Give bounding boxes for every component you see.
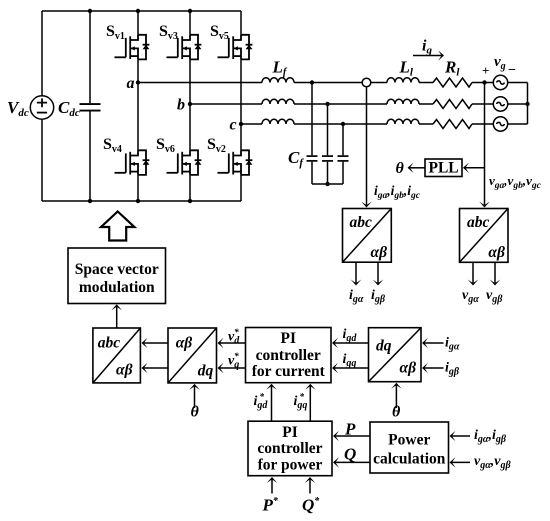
svg-text:igd: igd xyxy=(343,327,358,344)
svg-text:Rl: Rl xyxy=(444,58,460,79)
svg-text:−: − xyxy=(508,63,516,78)
svg-text:Cdc: Cdc xyxy=(58,98,80,119)
svg-text:vgα: vgα xyxy=(462,288,479,305)
svg-text:controller: controller xyxy=(257,440,322,457)
svg-text:αβ: αβ xyxy=(116,361,133,378)
svg-text:Sv3: Sv3 xyxy=(159,23,178,42)
svg-text:igα: igα xyxy=(445,336,460,353)
svg-text:dq: dq xyxy=(198,363,214,380)
svg-text:Power: Power xyxy=(388,431,430,448)
svg-text:igα,igβ: igα,igβ xyxy=(474,428,507,445)
svg-text:P*: P* xyxy=(262,496,279,515)
svg-text:igβ: igβ xyxy=(371,288,386,305)
svg-text:igq: igq xyxy=(343,352,357,369)
svg-text:Lf: Lf xyxy=(272,58,288,79)
svg-text:abc: abc xyxy=(350,214,373,231)
svg-text:αβ: αβ xyxy=(371,244,388,261)
svg-text:modulation: modulation xyxy=(79,279,155,296)
svg-text:vgα,vgβ: vgα,vgβ xyxy=(474,454,511,471)
svg-text:+: + xyxy=(482,63,489,78)
svg-text:vga,vgb,vgc: vga,vgb,vgc xyxy=(489,173,542,191)
svg-text:igα: igα xyxy=(349,288,364,305)
svg-text:iga,igb,igc: iga,igb,igc xyxy=(374,183,421,201)
svg-text:for current: for current xyxy=(252,363,326,380)
svg-text:abc: abc xyxy=(98,335,121,352)
svg-text:vg: vg xyxy=(494,54,506,72)
svg-text:αβ: αβ xyxy=(488,244,505,261)
svg-text:θ: θ xyxy=(392,404,401,421)
svg-text:igβ: igβ xyxy=(445,361,460,378)
svg-text:θ: θ xyxy=(396,160,405,177)
svg-text:calculation: calculation xyxy=(373,450,446,467)
svg-text:PI: PI xyxy=(281,330,297,347)
svg-text:vq*: vq* xyxy=(228,351,239,371)
svg-text:αβ: αβ xyxy=(400,360,417,377)
svg-text:for power: for power xyxy=(258,456,323,473)
svg-text:θ: θ xyxy=(191,404,200,421)
svg-text:vd*: vd* xyxy=(228,327,240,347)
svg-text:Vdc: Vdc xyxy=(7,98,29,119)
svg-text:PLL: PLL xyxy=(429,159,459,176)
svg-text:a: a xyxy=(127,75,135,92)
svg-text:PI: PI xyxy=(282,424,298,441)
svg-text:controller: controller xyxy=(256,347,321,364)
svg-text:Sv2: Sv2 xyxy=(207,136,226,155)
svg-text:b: b xyxy=(177,97,185,114)
svg-text:Q: Q xyxy=(344,445,356,464)
svg-text:αβ: αβ xyxy=(176,335,193,352)
svg-text:abc: abc xyxy=(467,214,490,231)
svg-text:igq*: igq* xyxy=(294,392,308,412)
svg-text:Sv5: Sv5 xyxy=(210,23,229,42)
svg-text:Cf: Cf xyxy=(288,148,304,169)
svg-text:P: P xyxy=(344,420,356,439)
svg-text:Sv1: Sv1 xyxy=(106,23,125,42)
svg-text:Q*: Q* xyxy=(302,496,320,515)
svg-text:c: c xyxy=(230,117,237,134)
svg-text:Ll: Ll xyxy=(399,58,414,79)
svg-text:ig: ig xyxy=(422,38,432,57)
svg-text:Sv4: Sv4 xyxy=(103,136,122,155)
svg-text:dq: dq xyxy=(376,337,392,354)
svg-text:Sv6: Sv6 xyxy=(156,136,175,155)
svg-text:vgβ: vgβ xyxy=(486,288,503,305)
svg-text:Space vector: Space vector xyxy=(75,261,159,278)
svg-text:igd*: igd* xyxy=(254,392,269,412)
